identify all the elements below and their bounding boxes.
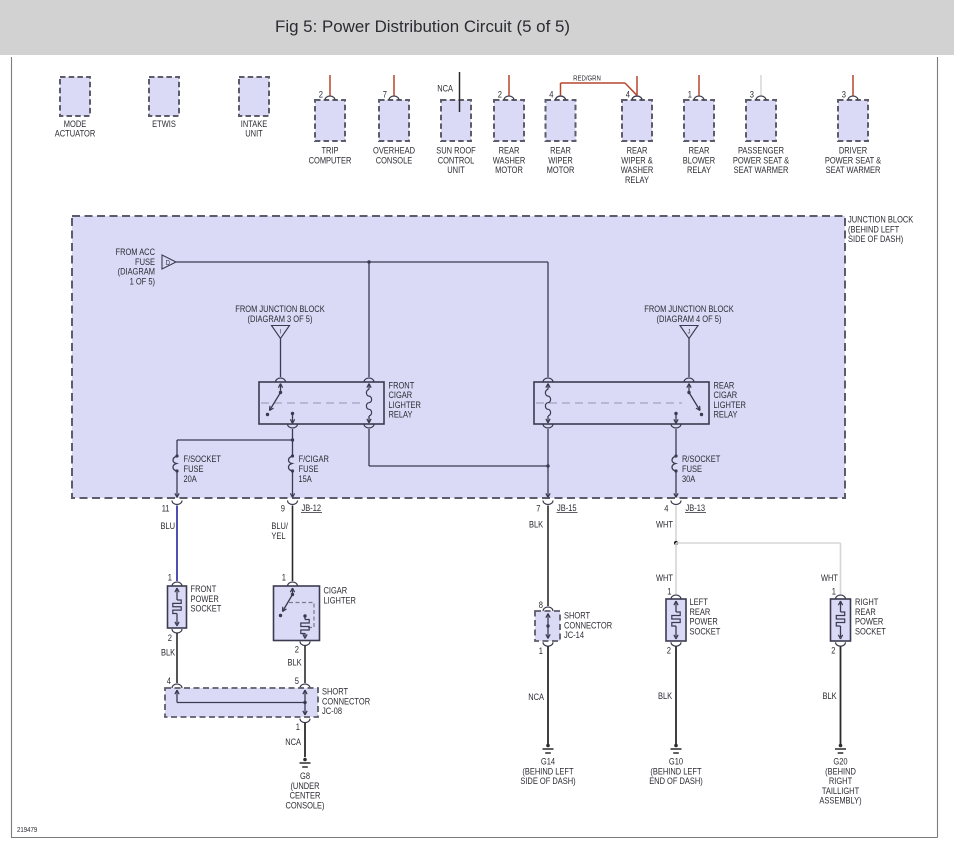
ground G20 label <box>819 757 861 806</box>
svg-text:(DIAGRAM 4 OF 5): (DIAGRAM 4 OF 5) <box>657 314 722 324</box>
FRONT relay coil <box>366 384 371 424</box>
svg-text:219479: 219479 <box>17 825 37 834</box>
wire ACC bus horizontal <box>176 261 548 263</box>
JC-14 pin 1 <box>539 642 553 656</box>
svg-text:BLK: BLK <box>161 648 176 658</box>
DRIVER POWER SEAT & SEAT WARMER pin 3 bump <box>842 90 858 101</box>
junction node WHT <box>674 541 678 545</box>
connector DRIVER POWER SEAT & SEAT WARMER <box>825 100 882 175</box>
svg-text:SHORT: SHORT <box>564 611 590 621</box>
svg-text:BLK: BLK <box>288 658 303 668</box>
svg-text:REAR: REAR <box>714 380 735 390</box>
svg-text:FROM JUNCTION BLOCK: FROM JUNCTION BLOCK <box>235 304 325 314</box>
right rear power socket pin 2 <box>831 642 845 655</box>
wire BLK cigar lighter to JC-08 pin 5 <box>288 645 306 683</box>
svg-text:1: 1 <box>667 587 671 597</box>
svg-text:RELAY: RELAY <box>687 165 711 175</box>
svg-text:J: J <box>688 329 691 336</box>
svg-text:COMPUTER: COMPUTER <box>309 155 352 165</box>
relay FRONT CIGAR LIGHTER RELAY body <box>259 382 384 424</box>
svg-text:WHT: WHT <box>656 573 673 583</box>
FRONT relay pin bumps <box>276 378 375 428</box>
svg-text:UNIT: UNIT <box>245 128 263 138</box>
JC-08 pin 1 <box>296 719 310 732</box>
svg-text:3: 3 <box>842 90 846 100</box>
component FRONT POWER SOCKET <box>168 586 187 628</box>
REAR BLOWER RELAY pin 1 bump <box>688 90 704 101</box>
svg-text:4: 4 <box>549 90 553 100</box>
JC-08 internal jumper <box>175 690 307 715</box>
JC-14 pin 8 <box>539 600 553 611</box>
svg-text:CONNECTOR: CONNECTOR <box>564 620 612 630</box>
svg-text:POWER SEAT &: POWER SEAT & <box>733 155 790 165</box>
junction node rear feed <box>546 464 549 467</box>
JC-14 internal wire <box>546 614 550 639</box>
page frame bottom border <box>11 837 938 839</box>
ground G8 <box>300 758 311 767</box>
svg-text:SOCKET: SOCKET <box>855 626 886 636</box>
svg-text:REAR: REAR <box>550 146 571 156</box>
wire BLK right rear power socket to ground G20 <box>823 646 841 744</box>
relay REAR CIGAR LIGHTER RELAY body <box>534 382 709 424</box>
svg-text:FUSE: FUSE <box>135 257 155 267</box>
component LEFT REAR POWER SOCKET <box>666 599 686 641</box>
CIGAR LIGHTER switch <box>279 588 295 617</box>
svg-text:WHT: WHT <box>821 573 838 583</box>
svg-text:RIGHT: RIGHT <box>855 597 879 607</box>
svg-text:20A: 20A <box>184 474 198 484</box>
svg-text:(UNDER: (UNDER <box>290 781 319 791</box>
wire rear relay output to R/SOCKET fuse <box>675 429 677 456</box>
connector REAR WIPER & WASHER RELAY <box>621 100 654 185</box>
PASSENGER POWER SEAT & SEAT WARMER pin 3 bump <box>750 90 766 101</box>
svg-text:BLU/: BLU/ <box>271 521 288 531</box>
svg-text:CIGAR: CIGAR <box>389 390 413 400</box>
svg-text:NCA: NCA <box>285 737 301 747</box>
svg-text:3: 3 <box>750 90 754 100</box>
fuse F/CIGAR FUSE 15A <box>288 454 329 484</box>
CIGAR LIGHTER heating element <box>301 614 309 638</box>
label FROM JUNCTION BLOCK (DIAGRAM 4 OF 5) <box>644 304 734 324</box>
svg-text:8: 8 <box>539 600 543 610</box>
svg-text:JC-08: JC-08 <box>322 706 342 716</box>
svg-text:UNIT: UNIT <box>447 165 465 175</box>
cigar lighter pin 2 <box>295 642 310 655</box>
svg-text:11: 11 <box>162 504 170 514</box>
svg-text:G10: G10 <box>669 757 683 767</box>
svg-text:CONSOLE: CONSOLE <box>376 155 413 165</box>
svg-text:2: 2 <box>831 646 835 656</box>
svg-text:JB-15: JB-15 <box>557 503 577 513</box>
svg-text:SUN ROOF: SUN ROOF <box>436 146 476 156</box>
svg-text:1: 1 <box>296 722 300 732</box>
svg-text:JUNCTION BLOCK: JUNCTION BLOCK <box>848 215 914 225</box>
connector PASSENGER POWER SEAT & SEAT WARMER <box>733 100 790 175</box>
wire WHT JB-13 down <box>656 506 676 544</box>
svg-text:(BEHIND LEFT: (BEHIND LEFT <box>848 224 899 234</box>
FRONT relay switch <box>266 384 283 417</box>
wire connector J to rear relay switch <box>688 339 690 378</box>
svg-text:CONTROL: CONTROL <box>438 155 475 165</box>
svg-text:END OF DASH): END OF DASH) <box>649 776 703 786</box>
JB-15 pin 7 and label <box>536 501 577 514</box>
off-page connector J <box>680 326 698 339</box>
FRONT POWER SOCKET label <box>191 584 222 614</box>
svg-text:(DIAGRAM 3 OF 5): (DIAGRAM 3 OF 5) <box>248 314 313 324</box>
svg-text:WASHER: WASHER <box>621 165 654 175</box>
front power socket pin 1 <box>168 573 182 587</box>
svg-text:ETWIS: ETWIS <box>152 119 176 129</box>
fuse F/SOCKET FUSE 20A <box>173 454 221 484</box>
svg-text:Fig 5: Power Distribution Circ: Fig 5: Power Distribution Circuit (5 of … <box>275 17 570 36</box>
svg-text:JC-14: JC-14 <box>564 630 584 640</box>
svg-text:2: 2 <box>295 645 299 655</box>
wire stub OVERHEAD CONSOLE <box>393 75 395 95</box>
connector TRIP COMPUTER <box>309 100 352 165</box>
wire stub TRIP COMPUTER <box>329 75 331 95</box>
svg-text:FUSE: FUSE <box>299 464 319 474</box>
svg-text:RED/GRN: RED/GRN <box>573 74 601 83</box>
REAR relay pin bumps <box>543 378 694 428</box>
svg-text:D: D <box>166 258 170 267</box>
svg-text:CIGAR: CIGAR <box>324 586 348 596</box>
svg-text:WIPER: WIPER <box>548 155 573 165</box>
connector INTAKE UNIT <box>239 77 269 138</box>
svg-text:BLU: BLU <box>161 521 176 531</box>
svg-text:BLK: BLK <box>529 520 544 530</box>
svg-text:SIDE OF DASH): SIDE OF DASH) <box>520 776 575 786</box>
svg-text:2: 2 <box>168 633 172 643</box>
svg-text:YEL: YEL <box>271 531 285 541</box>
svg-text:MOTOR: MOTOR <box>495 165 523 175</box>
svg-text:TAILLIGHT: TAILLIGHT <box>822 786 860 796</box>
svg-text:CONSOLE): CONSOLE) <box>285 800 324 810</box>
svg-text:1 OF 5): 1 OF 5) <box>130 276 155 286</box>
REAR relay coil <box>545 384 550 424</box>
wire WHT branch to right rear power socket <box>676 543 841 594</box>
wire stub REAR WASHER MOTOR <box>508 75 510 95</box>
svg-text:SIDE OF DASH): SIDE OF DASH) <box>848 234 903 244</box>
svg-text:(BEHIND: (BEHIND <box>825 766 856 776</box>
wire BLU/YEL to cigar lighter <box>271 506 292 582</box>
svg-text:F/SOCKET: F/SOCKET <box>184 454 222 464</box>
JC-08 pin 4 <box>167 676 182 688</box>
svg-text:DRIVER: DRIVER <box>839 146 868 156</box>
wire front relay output to fuse branch <box>292 429 294 456</box>
svg-text:ACTUATOR: ACTUATOR <box>55 128 96 138</box>
junction block (behind left side of dash) <box>72 216 845 498</box>
svg-text:SEAT WARMER: SEAT WARMER <box>826 165 881 175</box>
JB-13 pin 4 and label <box>664 501 706 514</box>
svg-text:REAR: REAR <box>499 146 520 156</box>
svg-text:7: 7 <box>536 504 540 514</box>
svg-text:30A: 30A <box>682 474 696 484</box>
JC-08 pin 5 <box>295 676 310 688</box>
page frame right border <box>937 57 939 838</box>
junction node ACC bus <box>367 260 370 263</box>
connector REAR BLOWER RELAY <box>683 100 716 175</box>
svg-text:NCA: NCA <box>437 84 453 94</box>
svg-text:RELAY: RELAY <box>714 410 738 420</box>
svg-text:15A: 15A <box>299 474 313 484</box>
svg-text:MOTOR: MOTOR <box>547 165 575 175</box>
wire connector I to front relay switch <box>280 339 282 378</box>
svg-text:RELAY: RELAY <box>625 175 649 185</box>
svg-text:WASHER: WASHER <box>493 155 526 165</box>
svg-text:(BEHIND LEFT: (BEHIND LEFT <box>522 766 573 776</box>
svg-text:BLK: BLK <box>823 691 838 701</box>
ground G8 label <box>285 771 324 810</box>
svg-text:4: 4 <box>167 676 171 686</box>
svg-text:WHT: WHT <box>656 520 673 530</box>
wire BLK front power socket to JC-08 pin 4 <box>161 633 177 683</box>
ground G10 label <box>649 757 703 787</box>
REAR WIPER & WASHER RELAY pin 4 bump <box>626 90 642 101</box>
svg-text:SEAT WARMER: SEAT WARMER <box>734 165 789 175</box>
svg-text:1: 1 <box>688 90 692 100</box>
svg-text:TRIP: TRIP <box>321 146 338 156</box>
svg-text:LIGHTER: LIGHTER <box>324 595 357 605</box>
wire NCA JC-08 to ground G8 <box>285 723 305 758</box>
svg-text:SOCKET: SOCKET <box>191 604 222 614</box>
junction block label <box>848 215 914 245</box>
wire stub REAR BLOWER RELAY <box>698 75 700 95</box>
connector ETWIS <box>149 77 179 129</box>
wire F/CIGAR fuse to JB-12 pin 9 <box>290 471 294 498</box>
component SHORT CONNECTOR JC-08 <box>165 688 318 717</box>
ground G20 <box>835 744 846 753</box>
wire BLU to front power socket <box>161 506 178 582</box>
svg-text:4: 4 <box>626 90 630 100</box>
svg-text:9: 9 <box>281 504 285 514</box>
svg-text:G14: G14 <box>541 757 555 767</box>
label FROM JUNCTION BLOCK (DIAGRAM 3 OF 5) <box>235 304 325 324</box>
svg-text:2: 2 <box>319 90 323 100</box>
svg-text:1: 1 <box>832 587 836 597</box>
off-page connector D <box>162 255 176 269</box>
svg-text:SOCKET: SOCKET <box>690 626 721 636</box>
svg-text:REAR: REAR <box>627 146 648 156</box>
front power socket pin 2 <box>168 629 182 643</box>
svg-text:ASSEMBLY): ASSEMBLY) <box>819 796 861 806</box>
svg-text:POWER SEAT &: POWER SEAT & <box>825 155 882 165</box>
CIGAR LIGHTER label <box>324 586 357 606</box>
SUN ROOF CONTROL UNIT wire NCA <box>437 72 459 112</box>
RIGHT REAR POWER SOCKET element <box>836 601 844 639</box>
wire branch to F/SOCKET fuse <box>177 440 293 456</box>
svg-text:G20: G20 <box>833 757 847 767</box>
svg-text:RELAY: RELAY <box>389 410 413 420</box>
svg-text:SHORT: SHORT <box>322 687 348 697</box>
svg-text:REAR: REAR <box>689 146 710 156</box>
connector SUN ROOF CONTROL UNIT <box>436 100 476 175</box>
svg-text:FUSE: FUSE <box>184 464 204 474</box>
component SHORT CONNECTOR JC-14 <box>535 611 560 641</box>
page frame left border <box>11 57 13 838</box>
REAR relay switch <box>687 384 703 417</box>
svg-text:G8: G8 <box>300 771 310 781</box>
svg-text:BLOWER: BLOWER <box>683 155 716 165</box>
connector REAR WASHER MOTOR <box>493 100 526 175</box>
component CIGAR LIGHTER <box>274 586 320 641</box>
junction node fuse branch <box>291 438 294 441</box>
wire ACC bus drop to rear relay coil <box>547 262 549 377</box>
LEFT REAR POWER SOCKET element <box>672 601 680 639</box>
svg-text:(DIAGRAM: (DIAGRAM <box>118 267 155 277</box>
wire BLK left rear power socket to ground G10 <box>658 646 676 744</box>
svg-text:4: 4 <box>664 504 668 514</box>
svg-text:FROM JUNCTION BLOCK: FROM JUNCTION BLOCK <box>644 304 734 314</box>
svg-text:NCA: NCA <box>528 692 544 702</box>
OVERHEAD CONSOLE pin 7 bump <box>383 90 399 101</box>
wire RED/GRN rear wiper motor to rear wiper and washer relay <box>556 74 643 101</box>
FRONT relay switch output <box>290 412 294 424</box>
left rear power socket pin 1 <box>667 587 681 600</box>
wire WHT right branch label <box>821 573 838 583</box>
REAR relay label <box>714 380 747 419</box>
svg-text:2: 2 <box>667 646 671 656</box>
svg-text:CIGAR: CIGAR <box>714 390 738 400</box>
svg-text:1: 1 <box>539 646 543 656</box>
cigar lighter pin 1 <box>282 573 298 587</box>
svg-text:LEFT: LEFT <box>690 597 709 607</box>
SHORT CONNECTOR JC-08 label <box>322 687 370 717</box>
right rear power socket pin 1 <box>832 587 846 600</box>
wire R/SOCKET fuse to JB-13 pin 4 <box>674 471 678 498</box>
RIGHT REAR POWER SOCKET label <box>855 597 886 636</box>
svg-text:JB-13: JB-13 <box>686 503 706 513</box>
svg-text:PASSENGER: PASSENGER <box>738 146 784 156</box>
svg-text:R/SOCKET: R/SOCKET <box>682 454 721 464</box>
wire NCA JC-14 to ground G14 <box>528 646 548 744</box>
svg-text:RIGHT: RIGHT <box>829 776 853 786</box>
svg-text:FRONT: FRONT <box>191 584 217 594</box>
svg-text:LIGHTER: LIGHTER <box>389 400 422 410</box>
svg-text:LIGHTER: LIGHTER <box>714 400 747 410</box>
wire BLK JB-15 to JC-14 <box>529 506 548 607</box>
label FROM ACC FUSE (DIAGRAM 1 OF 5) <box>116 247 156 286</box>
fuse R/SOCKET FUSE 30A <box>672 454 721 484</box>
svg-text:POWER: POWER <box>690 617 719 627</box>
wire rear relay coil to JB-15 pin 7 <box>546 429 550 498</box>
JB-12 pin 11 <box>162 501 182 514</box>
component RIGHT REAR POWER SOCKET <box>831 599 851 641</box>
header bar <box>0 0 954 55</box>
ground G14 <box>543 744 554 753</box>
TRIP COMPUTER pin 2 bump <box>319 90 335 101</box>
svg-text:OVERHEAD: OVERHEAD <box>373 146 415 156</box>
svg-text:POWER: POWER <box>855 617 884 627</box>
wire front relay coil to rear feed bus <box>369 429 548 466</box>
wire ACC bus drop to front relay coil <box>368 262 370 377</box>
svg-text:CONNECTOR: CONNECTOR <box>322 696 370 706</box>
svg-text:7: 7 <box>383 90 387 100</box>
connector REAR WIPER MOTOR <box>546 100 576 175</box>
SHORT CONNECTOR JC-14 label <box>564 611 612 641</box>
svg-text:REAR: REAR <box>855 607 876 617</box>
LEFT REAR POWER SOCKET label <box>690 597 721 636</box>
REAR WASHER MOTOR pin 2 bump <box>498 90 514 101</box>
svg-text:F/CIGAR: F/CIGAR <box>299 454 330 464</box>
svg-text:2: 2 <box>498 90 502 100</box>
CIGAR LIGHTER heater dashed outline <box>289 603 314 628</box>
FRONT relay label <box>389 380 422 419</box>
svg-text:FUSE: FUSE <box>682 464 702 474</box>
svg-text:BLK: BLK <box>658 691 673 701</box>
REAR relay switch output <box>674 412 678 424</box>
off-page connector I <box>272 326 290 339</box>
svg-text:FROM ACC: FROM ACC <box>116 247 156 257</box>
ground G10 <box>671 744 682 753</box>
svg-text:WIPER &: WIPER & <box>621 155 653 165</box>
svg-text:(BEHIND LEFT: (BEHIND LEFT <box>650 766 701 776</box>
svg-text:JB-12: JB-12 <box>302 503 322 513</box>
svg-text:CENTER: CENTER <box>290 791 321 801</box>
left rear power socket pin 2 <box>667 642 681 655</box>
FRONT POWER SOCKET element <box>173 588 181 626</box>
ground G14 label <box>520 757 575 787</box>
svg-text:1: 1 <box>282 573 286 583</box>
svg-text:I: I <box>280 329 282 336</box>
wire stub PASSENGER POWER SEAT & SEAT WARMER <box>760 75 762 95</box>
JB-12 pin 9 and label <box>281 501 322 514</box>
svg-text:REAR: REAR <box>690 607 711 617</box>
wire WHT to left rear power socket <box>656 543 676 594</box>
wire stub DRIVER POWER SEAT & SEAT WARMER <box>852 75 854 95</box>
figure number 219479 <box>17 825 37 834</box>
svg-text:FRONT: FRONT <box>389 380 415 390</box>
svg-text:1: 1 <box>168 573 172 583</box>
connector MODE ACTUATOR <box>55 77 96 138</box>
REAR WIPER MOTOR pin 4 bump <box>549 90 565 101</box>
connector OVERHEAD CONSOLE <box>373 100 415 165</box>
header title <box>275 17 570 36</box>
svg-text:POWER: POWER <box>191 594 220 604</box>
wire F/SOCKET fuse to JB-12 pin 11 <box>175 471 179 498</box>
svg-text:5: 5 <box>295 676 299 686</box>
